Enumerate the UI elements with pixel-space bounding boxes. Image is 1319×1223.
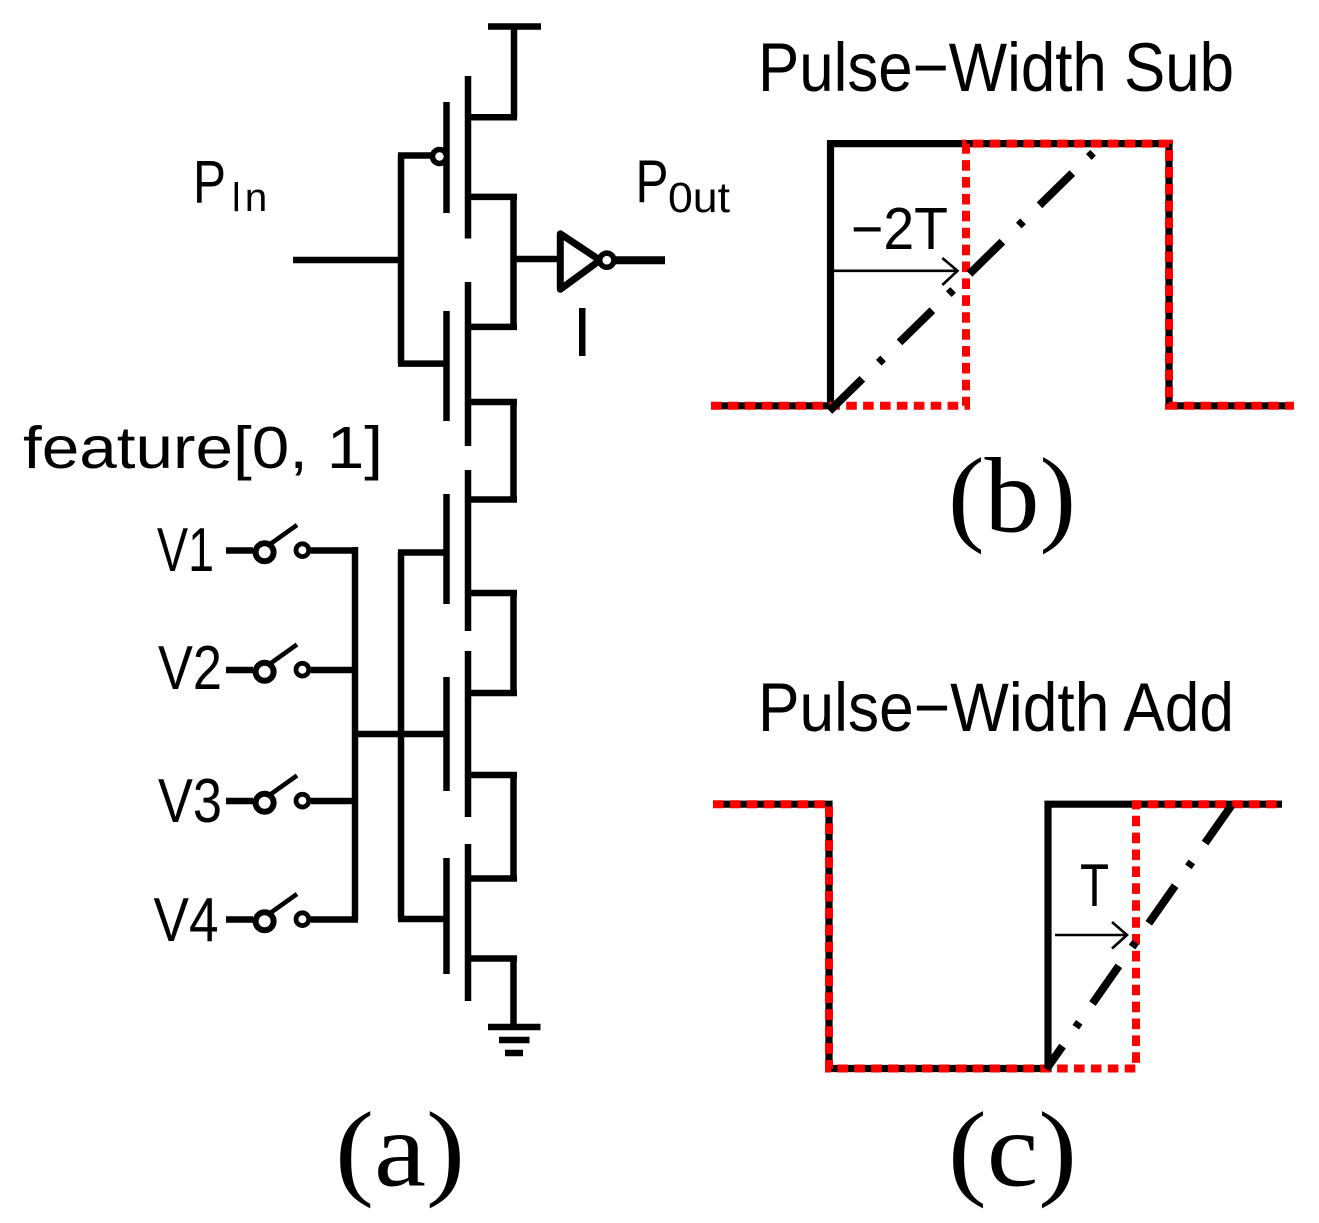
svg-text:V3: V3: [158, 767, 222, 836]
waveform (b) black pulse P_In: [711, 144, 1294, 406]
svg-text:(a): (a): [335, 1091, 465, 1209]
label P_In: [193, 148, 267, 221]
wire: V3 lead: [226, 798, 253, 805]
transistor M5 (NMOS) gate bar: [443, 858, 450, 974]
svg-text:(c): (c): [948, 1091, 1077, 1209]
svg-text:(b): (b): [948, 438, 1076, 556]
wire: U1 output lead to P_Out: [613, 256, 665, 264]
label P_Out: [636, 147, 731, 222]
wire: rail M3 source to M4 drain: [510, 593, 517, 693]
waveform (c) black pulse P_In: [713, 804, 1282, 1068]
switch S4 pole contact: [256, 912, 274, 930]
inverter buffer U1 triangle: [560, 234, 600, 289]
svg-text:P: P: [193, 148, 226, 216]
wire: S3 to bus: [311, 798, 358, 805]
wire: switch bus: [352, 547, 359, 920]
transistor M4 (NMOS) channel bar: [465, 651, 472, 817]
svg-text:T: T: [1080, 852, 1109, 919]
svg-text:Pulse−Width Add: Pulse−Width Add: [758, 669, 1234, 746]
switch S4 blade: [268, 894, 298, 915]
inverter buffer U1 bubble: [600, 253, 614, 267]
transistor M4 (NMOS) gate bar: [443, 677, 450, 791]
transistor M5 (NMOS) channel bar: [465, 844, 472, 1001]
transistor M3 (NMOS) source stub: [468, 590, 517, 597]
wire: P_In input lead: [293, 257, 401, 264]
svg-text:−2T: −2T: [851, 196, 948, 262]
wire: output tap to inverter: [514, 256, 559, 263]
switch S3 blade: [268, 776, 298, 797]
wire: rail M5 source to ground: [510, 959, 517, 1028]
transistor M1 (PMOS) gate bubble: [433, 150, 447, 164]
wire: S2 to bus: [311, 667, 358, 674]
transistor M3 (NMOS) gate stub wire: [398, 549, 450, 556]
svg-text:n: n: [245, 176, 267, 220]
switch S2 blade: [268, 645, 298, 666]
switch S1 pole contact: [256, 543, 274, 561]
wire: S4 to bus: [311, 916, 358, 923]
svg-text:feature[0, 1]: feature[0, 1]: [23, 414, 383, 481]
transistor M2 (NMOS) gate stub wire: [398, 360, 450, 367]
transistor M2 (NMOS) gate bar: [443, 311, 450, 421]
VDD supply symbol: [488, 27, 541, 118]
svg-text:P: P: [636, 147, 669, 215]
switch S4 throw contact: [296, 913, 309, 926]
transistor M1 (PMOS) source stub: [468, 114, 517, 121]
wire: V1 lead: [226, 547, 253, 554]
wire: V2 lead: [226, 667, 253, 674]
arrow -2T shift: [834, 258, 958, 285]
transistor M2 (NMOS) channel bar: [465, 282, 472, 446]
transistor M5 (NMOS) drain stub: [468, 875, 517, 882]
waveform (c) red dotted pulse P_Out: [713, 804, 1282, 1068]
transistor M1 (PMOS) gate bar: [443, 102, 450, 213]
transistor M4 (NMOS) gate stub wire from switch bus: [355, 731, 450, 738]
wire: rail M2 source to M3 drain: [510, 402, 517, 500]
wire: input gate rail (P_In): [398, 156, 405, 364]
switch S1 throw contact: [296, 544, 309, 557]
transistor M4 (NMOS) drain stub: [468, 690, 517, 697]
transistor M1 (PMOS) gate stub wire: [398, 152, 431, 159]
transistor M4 (NMOS) source stub: [468, 772, 517, 779]
transistor M2 (NMOS) drain stub: [468, 324, 517, 331]
transistor M5 (NMOS) gate stub wire: [398, 916, 450, 923]
svg-text:V4: V4: [154, 886, 219, 955]
switch S1 blade: [268, 525, 298, 546]
transistor M3 (NMOS) gate bar: [443, 494, 450, 604]
wire: S1 to bus: [311, 547, 358, 554]
waveform (b) dash-dot ramp: [830, 145, 1102, 411]
switch S2 throw contact: [296, 663, 309, 676]
transistor M3 (NMOS) drain stub: [468, 496, 517, 503]
waveform (c) dash-dot ramp: [1047, 800, 1236, 1069]
wire: rail M4 source to M5 drain: [510, 775, 517, 879]
label I (inverter name): [579, 308, 586, 356]
wire: V4 lead: [226, 916, 253, 923]
svg-text:0ut: 0ut: [668, 175, 730, 222]
switch S3 pole contact: [256, 794, 274, 812]
transistor M3 (NMOS) channel bar: [465, 470, 472, 631]
svg-text:Pulse−Width Sub: Pulse−Width Sub: [758, 29, 1234, 106]
svg-text:V2: V2: [158, 634, 222, 703]
ground: [488, 1027, 541, 1053]
waveform (b) red dotted pulse P_Out: [711, 144, 1294, 406]
wire: feature gate rail (V switches): [398, 553, 405, 920]
transistor M1 (PMOS) channel bar: [465, 76, 472, 239]
switch S3 throw contact: [296, 794, 309, 807]
svg-text:V1: V1: [157, 516, 214, 585]
wire: rail M1 drain to M2 drain: [510, 197, 517, 327]
arrow T shift: [1055, 922, 1127, 949]
transistor M1 (PMOS) drain stub: [468, 194, 517, 201]
switch S2 pole contact: [256, 663, 274, 681]
transistor M2 (NMOS) source stub: [468, 399, 517, 406]
transistor M5 (NMOS) source stub: [468, 955, 517, 962]
